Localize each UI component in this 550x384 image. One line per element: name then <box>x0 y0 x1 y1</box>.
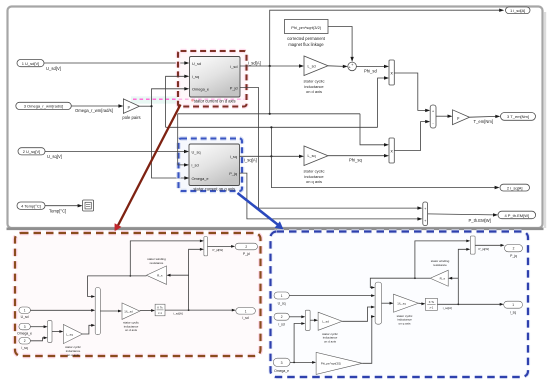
q product P=R*i*i <box>470 236 475 254</box>
svg-text:U_sq: U_sq <box>278 301 286 305</box>
d wire sum mux to 1/L_sd <box>100 310 122 313</box>
svg-text:Omega_e: Omega_e <box>274 369 289 373</box>
d wire integrator to outport 1, label i_sd[A] <box>165 309 236 316</box>
d wire U_sd to sum mux <box>30 309 95 312</box>
svg-text:U_sd[V]: U_sd[V] <box>46 66 61 71</box>
wire P_jd down to P mux <box>240 88 422 210</box>
svg-text:P_jd[W]: P_jd[W] <box>213 248 224 252</box>
svg-text:U_sq[V]: U_sq[V] <box>47 154 62 159</box>
wire constant to sum <box>328 27 354 62</box>
subsystem: stator current on d axis <box>190 57 241 104</box>
svg-text:P_th.EM[W]: P_th.EM[W] <box>469 218 491 223</box>
d wire product to outport 2, label P_jd[W] <box>208 245 236 252</box>
wire i_sd output rail to L_sd <box>240 60 304 67</box>
svg-text:1/L_sd: 1/L_sd <box>124 309 133 313</box>
wire L_sq to q-product, label Phi_sq <box>328 154 389 162</box>
frame bottom shadow line <box>7 228 544 231</box>
svg-text:P_jq: P_jq <box>229 171 237 176</box>
svg-text:K Ts: K Ts <box>429 300 435 304</box>
svg-text:resistance: resistance <box>433 263 447 267</box>
svg-text:stator cyclic: stator cyclic <box>304 78 325 83</box>
svg-text:R_s: R_s <box>157 274 163 278</box>
wire P sum to outport 4 <box>428 213 498 223</box>
svg-text:3: 3 <box>281 361 283 365</box>
inport 4 Temp[degC] <box>17 202 66 214</box>
wire i_sq output rail to L_sq <box>240 155 305 163</box>
svg-text:i_sq: i_sq <box>21 346 28 350</box>
blue box interior tint <box>179 139 243 192</box>
frame right soft shadow <box>544 12 546 228</box>
wire to outport T_em <box>470 115 501 125</box>
q product Omega*i_sd <box>305 310 310 330</box>
svg-text:R_s: R_s <box>440 276 446 280</box>
svg-text:i_sd: i_sd <box>242 316 249 320</box>
q wire U_sq to sum mux <box>289 294 375 297</box>
svg-text:L_sd: L_sd <box>308 64 316 68</box>
d wire R_s out: up to product, left-down to sum mux <box>88 240 204 298</box>
red box interior tint <box>178 51 247 107</box>
blue dashed highlight box (q axis) halo <box>179 139 243 192</box>
cyan artifact band <box>131 96 178 103</box>
d gain L_sq <box>63 325 82 357</box>
svg-text:i_sq[A]: i_sq[A] <box>244 158 257 163</box>
q sum mux <box>375 282 381 324</box>
q outport 2 P_jq <box>505 245 523 259</box>
q wire Phi_pm gain to sum mux <box>362 315 375 363</box>
svg-text:1: 1 <box>281 294 283 298</box>
d inport 1 U_sd <box>19 307 31 319</box>
inport 1 U_sd[V] <box>17 60 61 71</box>
svg-text:2: 2 <box>513 247 515 251</box>
svg-text:i_sd[A]: i_sd[A] <box>173 312 183 316</box>
outport 2 i_sq[A] <box>500 184 530 191</box>
svg-text:4 P_th.EM[W]: 4 P_th.EM[W] <box>504 213 529 218</box>
d discrete integrator K Ts/(z-1) <box>155 304 165 316</box>
svg-text:Temp[°C]: Temp[°C] <box>49 209 66 214</box>
q wire product to L_sd gain <box>310 319 318 322</box>
wire Omega to pole pairs gain <box>71 104 123 107</box>
svg-text:2: 2 <box>281 315 283 319</box>
wire i_sq branch up: rail y=127.3 feeding d-subsystem and d-product <box>166 75 389 158</box>
svg-text:inductance: inductance <box>304 174 324 179</box>
gain L_sd <box>304 56 328 94</box>
outport 4 P_th.EM[W] <box>498 211 536 219</box>
red dashed highlight box (d axis) <box>178 51 247 107</box>
q discrete integrator K Ts/(z-1) <box>425 298 437 310</box>
q outport 1 i_sq <box>504 301 523 314</box>
wire P_jq down to P mux <box>240 173 423 221</box>
svg-text:i_sq[A]: i_sq[A] <box>442 306 452 310</box>
svg-text:1/L_sq: 1/L_sq <box>397 301 406 305</box>
d feedback wire up to product and R_s <box>167 248 204 310</box>
svg-text:on q axis: on q axis <box>67 353 80 357</box>
outer grey frame of model window <box>8 7 543 229</box>
svg-text:4 Temp[°C]: 4 Temp[°C] <box>21 204 41 209</box>
svg-text:resistance: resistance <box>150 261 164 265</box>
svg-text:Phi_pm*sqrt(3/2): Phi_pm*sqrt(3/2) <box>291 25 322 30</box>
d product Omega*i_sq <box>48 321 52 343</box>
svg-text:i_sd[A]: i_sd[A] <box>248 60 261 65</box>
svg-text:on d axis: on d axis <box>324 340 337 344</box>
svg-text:K Ts: K Ts <box>157 306 163 310</box>
svg-text:i_sq: i_sq <box>510 311 517 315</box>
svg-text:U_sq: U_sq <box>192 149 201 154</box>
q inport 2 i_sd <box>274 313 289 326</box>
svg-text:2 i_sq[A]: 2 i_sq[A] <box>507 185 523 190</box>
wire q-product to T mux <box>394 120 430 151</box>
inport 3 Omega_r_wm[rad/s] <box>16 102 113 113</box>
svg-text:1: 1 <box>24 309 26 313</box>
svg-text:i_sd: i_sd <box>191 163 198 168</box>
gain p (pole pairs) <box>122 99 140 120</box>
red detail box dashed border <box>15 233 261 356</box>
q wire i_sd to product <box>289 315 305 318</box>
product (d axis torque term) <box>389 60 394 85</box>
svg-text:Phi_sd: Phi_sd <box>364 68 377 73</box>
T sum block <box>430 105 436 128</box>
q gain L_sd <box>318 312 342 343</box>
svg-text:1 U_sd[V]: 1 U_sd[V] <box>22 61 40 66</box>
q gain Phi_pm*sqrt(3/2) <box>316 352 362 374</box>
svg-text:L_sq: L_sq <box>66 332 73 336</box>
svg-text:on d axis: on d axis <box>306 89 322 94</box>
svg-text:on q axis: on q axis <box>306 179 322 184</box>
svg-text:U_sd: U_sd <box>21 315 29 319</box>
gain L_sq <box>304 146 328 184</box>
svg-text:inductance: inductance <box>304 84 324 89</box>
svg-text:magnet flux linkage: magnet flux linkage <box>288 42 324 47</box>
d outport 1 i_sd <box>236 308 256 321</box>
q feedback wire up to product and R_s <box>448 248 470 304</box>
blue detail box dashed border <box>271 232 529 378</box>
subsystem: stator current on q axis <box>189 144 240 191</box>
q wire product to outport 2, label P_jq[W] <box>475 244 504 251</box>
q wire sum mux to 1/L_sq <box>382 302 394 305</box>
blue detail box halo <box>271 232 529 378</box>
q wire R_s out: up to product, left-down to sum mux <box>370 240 470 289</box>
q inport 3 Omega_e <box>273 358 290 373</box>
svg-text:U_sd: U_sd <box>192 61 201 66</box>
svg-text:L_sd: L_sd <box>322 320 329 324</box>
svg-text:Omega_r_wm[rad/s]: Omega_r_wm[rad/s] <box>75 108 113 113</box>
svg-text:z-1: z-1 <box>158 311 162 315</box>
svg-text:3 T_em[Nm]: 3 T_em[Nm] <box>507 114 529 119</box>
svg-text:P_jq[W]: P_jq[W] <box>479 247 490 251</box>
outport 1 i_sd[A] <box>506 7 531 14</box>
d wire product to L_sq gain <box>52 330 63 333</box>
svg-text:Phi_sq: Phi_sq <box>349 157 362 162</box>
q wire 1/L_sq to integrator <box>418 302 425 305</box>
svg-text:1: 1 <box>512 303 514 307</box>
wire sum to d-product, label Phi_sd <box>356 65 389 74</box>
svg-text:P_jd: P_jd <box>230 85 238 90</box>
d wire L_sq gain to sum mux <box>83 324 96 334</box>
wire Omega_e from p gain, branch up to d-subsystem and down to q-subsystem <box>139 87 189 180</box>
svg-text:z-1: z-1 <box>430 306 434 310</box>
d product P=R*i*i <box>204 237 208 256</box>
svg-text:Phi_pm*sqrt(3/2): Phi_pm*sqrt(3/2) <box>321 362 341 366</box>
d gain 1/L_sd <box>122 303 140 332</box>
terminator / goto block for Temp <box>83 200 94 211</box>
wire L_sd to sum <box>328 65 348 68</box>
svg-text:1: 1 <box>245 309 247 313</box>
svg-text:on q axis: on q axis <box>398 322 411 326</box>
blue zoom arrow <box>238 193 284 230</box>
svg-text:corrected permanent: corrected permanent <box>287 36 326 41</box>
d wire i_sq to product <box>30 336 47 340</box>
svg-text:Omega_e: Omega_e <box>192 87 209 92</box>
magenta dashed annotation line <box>133 98 247 100</box>
svg-text:2 U_sq[V]: 2 U_sq[V] <box>23 149 41 154</box>
svg-text:Omega_e: Omega_e <box>17 332 32 336</box>
svg-text:L_sq: L_sq <box>308 154 316 158</box>
wire T sum to gain p <box>436 115 453 118</box>
svg-text:on d axis: on d axis <box>125 328 138 332</box>
wire i_sq branch down to outport 2 <box>271 156 499 189</box>
sum circle <box>348 62 357 71</box>
q gain R_s (stator winding resistance) <box>430 259 449 286</box>
svg-text:P_jq: P_jq <box>510 254 517 258</box>
svg-text:i_sd: i_sd <box>230 64 237 69</box>
svg-text:3 Omega_r_wm[rad/s]: 3 Omega_r_wm[rad/s] <box>24 104 64 109</box>
inport 2 U_sq[V] <box>18 148 62 159</box>
red zoom arrow <box>115 105 181 232</box>
q gain 1/L_sq <box>394 294 419 325</box>
svg-text:Omega_e: Omega_e <box>192 176 209 181</box>
q wire integrator to outport 1, label i_sq[A] <box>437 303 503 310</box>
svg-text:T_em[Nm]: T_em[Nm] <box>474 119 494 124</box>
q wire L_sd gain to sum mux <box>342 306 375 322</box>
red marker dot on annotation <box>191 99 194 102</box>
svg-text:stator current on q axis: stator current on q axis <box>193 186 235 191</box>
red dashed highlight box (d axis) halo <box>178 51 247 107</box>
d gain R_s (stator winding resistance) <box>146 257 166 284</box>
constant Phi_pm*sqrt(3/2) <box>285 20 329 48</box>
svg-text:i_sd: i_sd <box>278 323 285 327</box>
d inport 2 i_sq <box>19 338 31 350</box>
d inport 3 Omega_e <box>17 323 32 335</box>
d sum mux <box>95 288 100 335</box>
svg-text:2: 2 <box>245 245 247 249</box>
d outport 2 P_jd <box>235 243 257 256</box>
svg-text:P_jd: P_jd <box>243 252 250 256</box>
q wire Omega_e to Phi_pm gain and product <box>290 322 316 364</box>
svg-text:stator current on d axis: stator current on d axis <box>194 98 236 103</box>
q inport 1 U_sq <box>274 292 289 305</box>
product (q axis torque term) <box>389 138 394 163</box>
wire U_sd to d-axis subsystem <box>44 61 189 64</box>
wire i_sd branch up to outport 1 <box>269 9 505 68</box>
svg-text:i_sq: i_sq <box>230 154 237 159</box>
P sum block <box>423 202 428 226</box>
svg-text:3: 3 <box>24 325 26 329</box>
wire i_sd branch down: rail y=113.8 feeding q-subsystem and q-product <box>178 66 389 167</box>
blue dashed highlight box (q axis) <box>179 139 243 192</box>
outport 3 T_em[Nm] <box>501 113 536 121</box>
wire d-product to T mux <box>394 73 430 112</box>
svg-text:2: 2 <box>24 339 26 343</box>
wire Temp to terminator block <box>45 204 83 207</box>
svg-text:pole pairs: pole pairs <box>122 115 140 120</box>
svg-text:stator cyclic: stator cyclic <box>304 168 325 173</box>
d wire 1/L_sd to integrator <box>140 309 155 312</box>
gain p (torque) <box>453 110 470 125</box>
wire U_sq to q-axis subsystem <box>45 150 189 153</box>
svg-text:1 i_sd[A]: 1 i_sd[A] <box>510 8 525 13</box>
d wire Omega_e to product <box>30 325 47 328</box>
svg-text:i_sq: i_sq <box>192 74 199 79</box>
red detail box halo <box>15 233 261 356</box>
